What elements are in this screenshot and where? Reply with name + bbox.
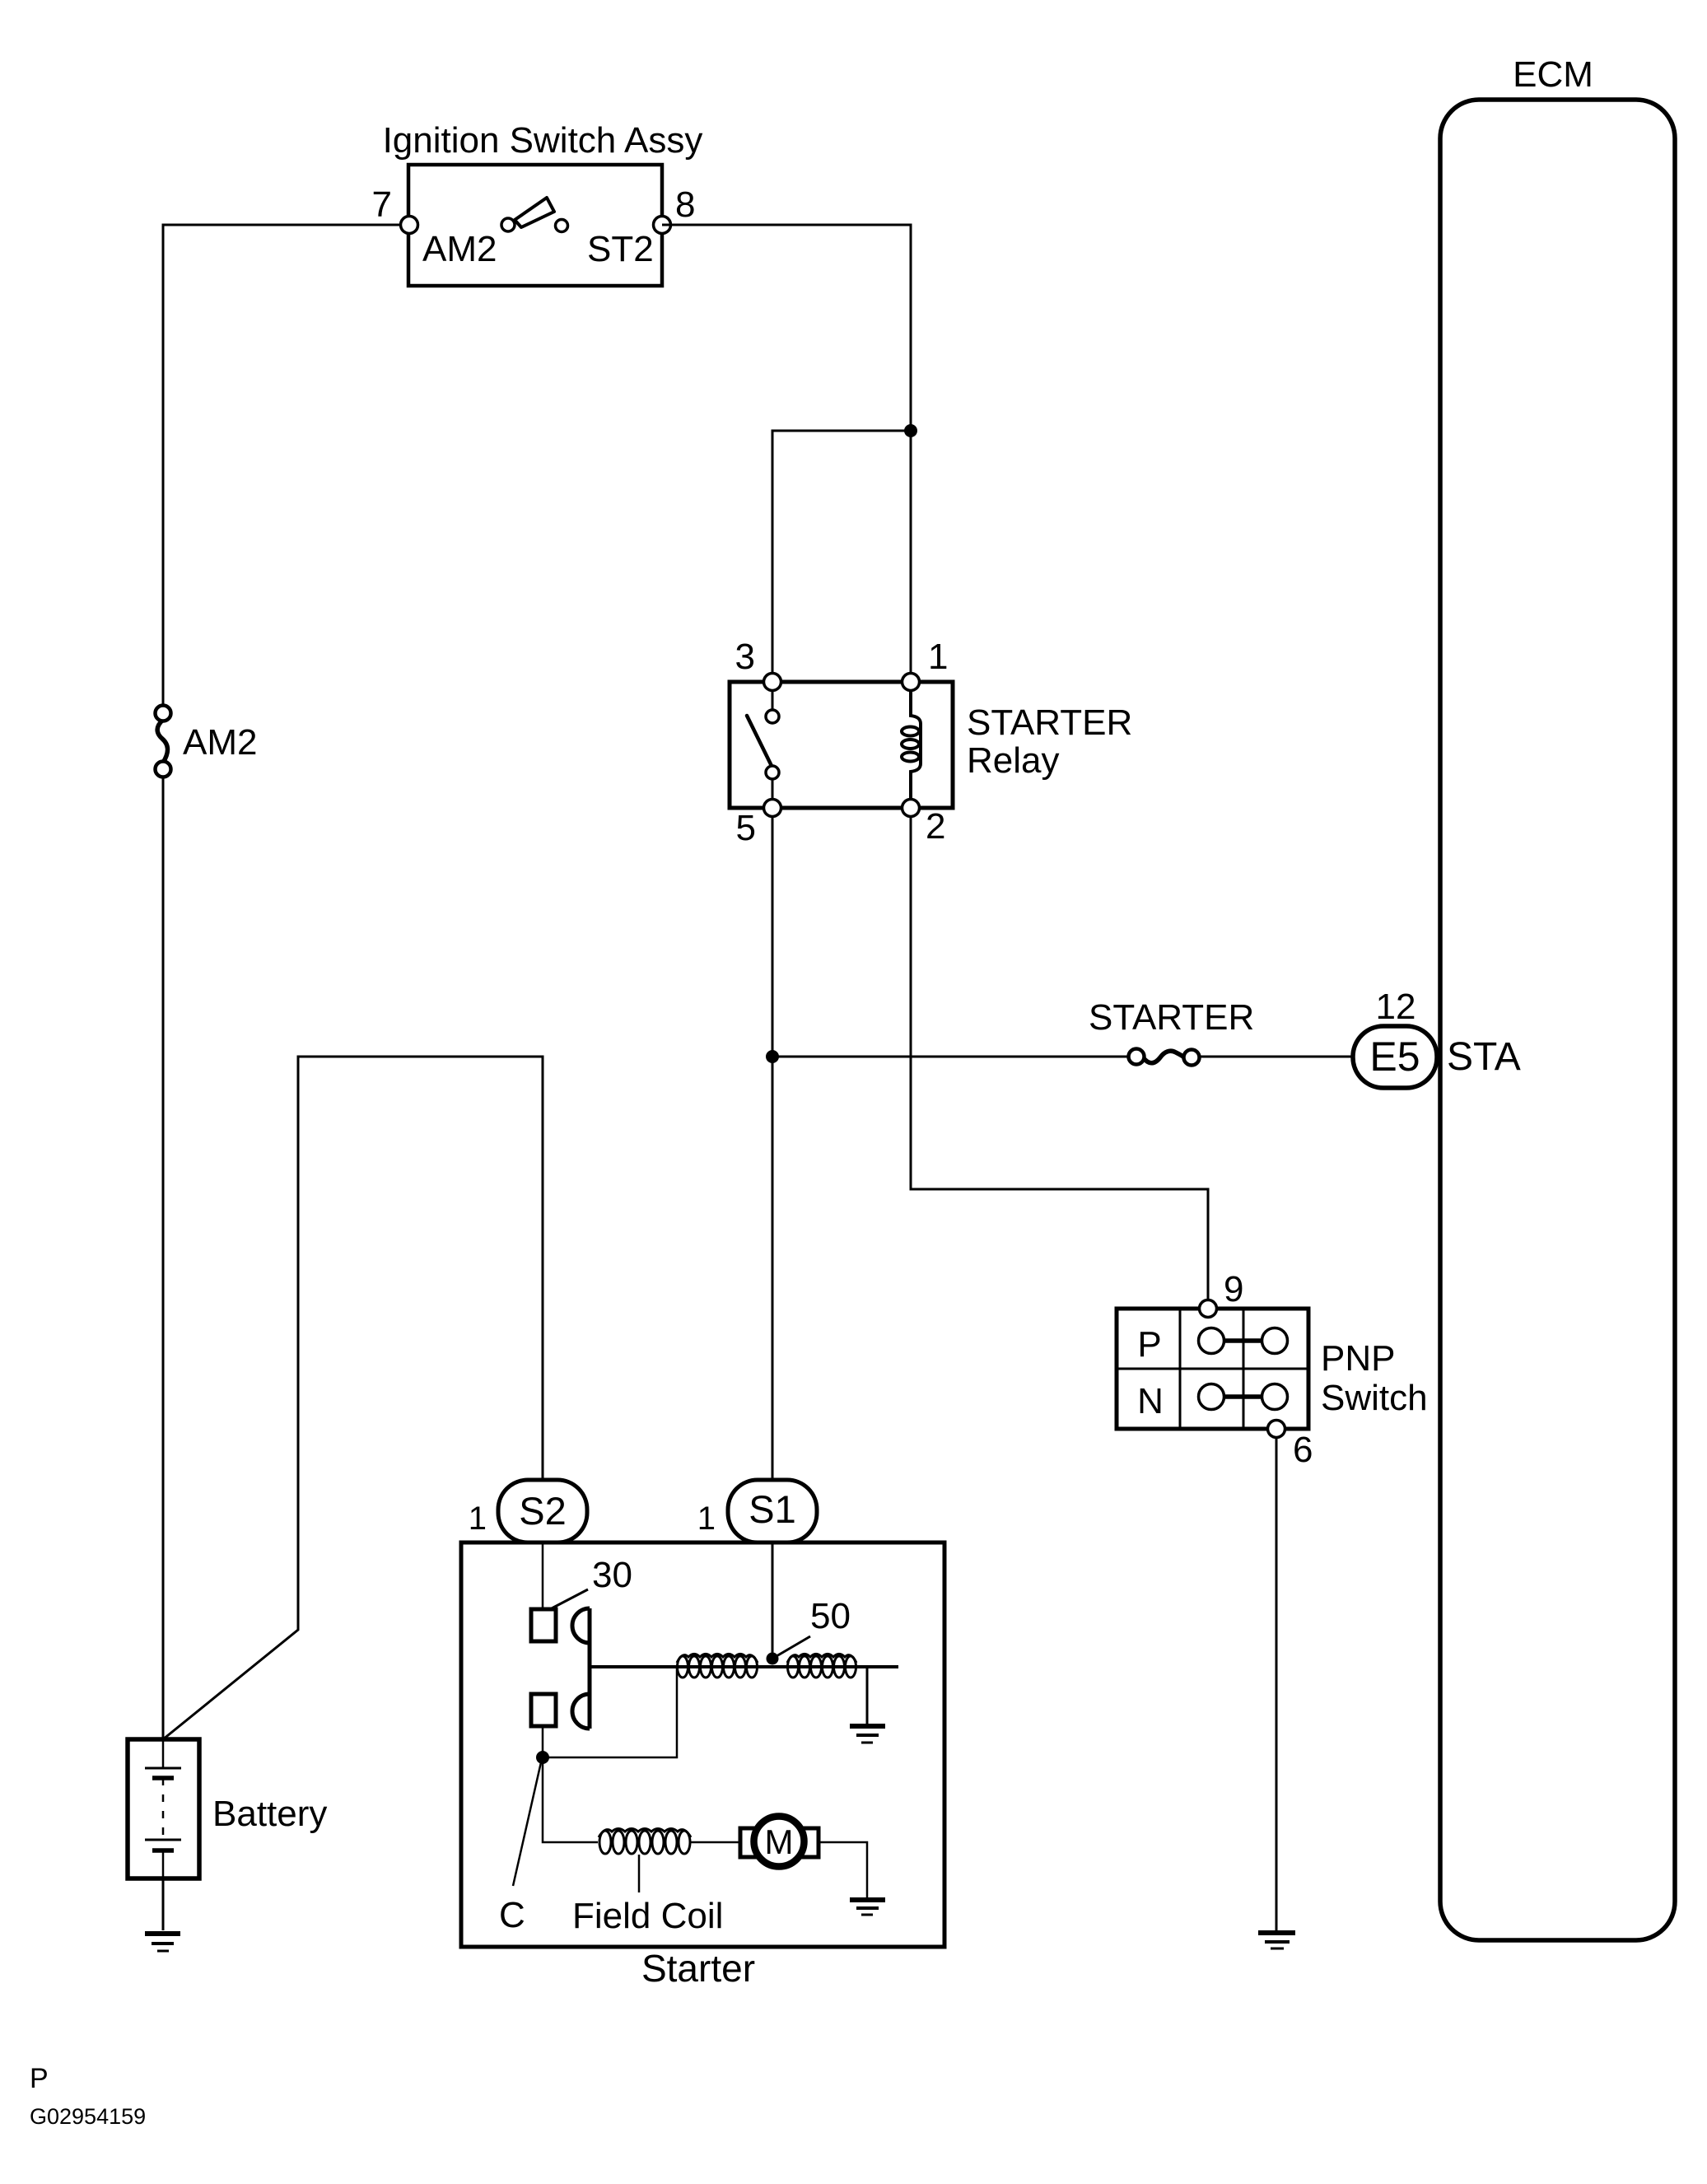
PNP row N contacts (1199, 1384, 1288, 1410)
label C with pointer (513, 1762, 541, 1886)
svg-text:ECM: ECM (1513, 54, 1593, 95)
svg-text:1: 1 (697, 1500, 716, 1537)
svg-text:Relay: Relay (967, 740, 1060, 781)
starter box (461, 1542, 944, 1947)
battery (128, 1739, 199, 1878)
svg-text:Field Coil: Field Coil (572, 1896, 723, 1936)
svg-text:50: 50 (810, 1596, 851, 1636)
pin 6 (PNP) (1268, 1421, 1285, 1438)
starter relay box (730, 682, 953, 808)
svg-text:ST2: ST2 (587, 229, 654, 269)
svg-text:AM2: AM2 (183, 722, 257, 763)
node C (536, 1751, 549, 1764)
svg-text:M: M (765, 1822, 794, 1861)
svg-text:Switch: Switch (1321, 1378, 1428, 1418)
svg-text:AM2: AM2 (422, 229, 497, 269)
PNP switch box (1117, 1309, 1308, 1429)
svg-text:N: N (1137, 1381, 1164, 1421)
svg-text:3: 3 (735, 637, 755, 677)
pin 9 (PNP) (1200, 1300, 1217, 1318)
svg-text:P: P (1137, 1324, 1161, 1365)
wire: PNP pin6 to ground (1276, 1437, 1278, 1930)
terminal C contact (lower square) (531, 1694, 556, 1726)
svg-text:5: 5 (736, 808, 756, 848)
ground (battery) (145, 1934, 180, 1951)
solenoid plunger plate (572, 1608, 590, 1729)
svg-text:STARTER: STARTER (967, 702, 1132, 743)
wire: coil to ground (866, 1667, 869, 1724)
wire: fuse to E5 (1199, 1056, 1353, 1058)
wire: pin8 down to relay pin1 (662, 225, 911, 682)
relay switch wire to pin5 (772, 779, 774, 800)
fuse STARTER (1129, 1049, 1200, 1066)
relay lever (747, 716, 772, 766)
motor M (740, 1817, 819, 1867)
ECM box (1440, 100, 1675, 1940)
svg-text:S1: S1 (749, 1487, 796, 1531)
terminal 30 contact (upper square) (531, 1609, 556, 1641)
svg-text:12: 12 (1376, 987, 1416, 1027)
relay moving contact (766, 766, 779, 779)
ignition switch assy box (408, 165, 662, 286)
svg-text:P: P (30, 2063, 49, 2094)
relay switch wire from pin3 (772, 690, 774, 710)
relay coil (902, 690, 921, 800)
connector S2 (498, 1480, 587, 1542)
pin 3 (relay) (764, 674, 781, 691)
wire: battery negative to ground (162, 1878, 165, 1930)
svg-text:E5: E5 (1369, 1034, 1420, 1080)
wire: relay pin2 to PNP pin9 (911, 816, 1208, 1309)
svg-text:Starter: Starter (641, 1947, 755, 1990)
svg-text:2: 2 (926, 806, 945, 847)
svg-text:30: 30 (592, 1555, 632, 1595)
switch contact right (556, 220, 568, 232)
solenoid core line (590, 1665, 898, 1668)
svg-text:STARTER: STARTER (1089, 997, 1254, 1038)
pin 1 (relay) (902, 674, 920, 691)
switch contact left (501, 218, 515, 231)
pin 8 (ignition ST2) (654, 217, 671, 234)
svg-text:1: 1 (469, 1500, 487, 1537)
svg-text:Battery: Battery (212, 1794, 327, 1834)
svg-text:G02954159: G02954159 (30, 2104, 146, 2129)
node: coil 50 junction (767, 1653, 779, 1665)
wire: field coil to motor (691, 1841, 740, 1844)
svg-text:7: 7 (372, 184, 392, 225)
switch lever (ignition) (515, 198, 554, 227)
wire: junction to STARTER fuse (772, 1056, 1129, 1058)
wire: branch to relay pin3 (772, 431, 911, 682)
svg-text:C: C (499, 1895, 525, 1935)
coil 50 (left group) (677, 1654, 758, 1678)
connector E5 pin 12 (1353, 1026, 1437, 1088)
svg-text:1: 1 (928, 637, 948, 677)
field coil (599, 1829, 691, 1855)
wire: S2 into terminal 30 (542, 1542, 544, 1609)
ground (coil 50) (850, 1726, 885, 1743)
svg-text:STA: STA (1447, 1035, 1521, 1079)
connector S1 (728, 1480, 817, 1542)
ground (motor) (850, 1900, 885, 1915)
wire: C down to field coil (543, 1757, 598, 1842)
ground (PNP pin6) (1258, 1933, 1295, 1948)
wire: relay pin5 down to S1 (772, 816, 774, 1480)
wire: C terminal to plate line (542, 1725, 544, 1757)
svg-text:Ignition Switch Assy: Ignition Switch Assy (383, 120, 703, 161)
fuse AM2 (156, 706, 171, 777)
node: junction STA wire (766, 1050, 779, 1063)
svg-text:8: 8 (675, 184, 695, 225)
relay fixed contact (766, 710, 779, 723)
svg-text:6: 6 (1293, 1430, 1313, 1470)
label Field Coil with pointer (638, 1855, 641, 1892)
pin 7 (ignition AM2) (401, 217, 418, 234)
coil 50 (right group) (787, 1654, 856, 1678)
node: junction ST2/relay (904, 424, 917, 437)
pin 5 (relay) (764, 800, 781, 817)
wire: motor to ground (819, 1842, 867, 1898)
wire: fuse to battery positive (162, 777, 165, 1739)
PNP row P contacts (1199, 1328, 1288, 1354)
pin 2 (relay) (902, 800, 920, 817)
svg-text:S2: S2 (519, 1489, 567, 1533)
svg-text:PNP: PNP (1321, 1338, 1395, 1379)
wire: battery to S2 (163, 1057, 543, 1739)
svg-text:9: 9 (1224, 1269, 1243, 1309)
wire: S1 down to coil junction (772, 1542, 774, 1659)
wire: ignition pin7 to left vertical (163, 225, 409, 713)
